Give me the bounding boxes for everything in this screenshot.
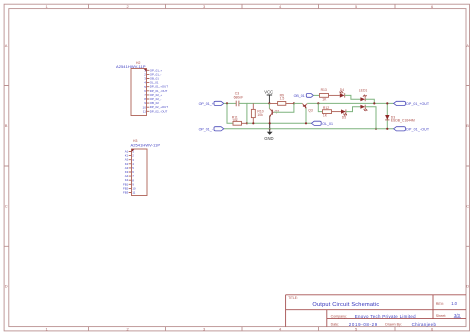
- wire Q3 emitter to rail1: [305, 108, 307, 123]
- connector H2 pin stubs: [147, 70, 150, 111]
- svg-text:LED1: LED1: [359, 88, 368, 92]
- junction R10 bottom on rail: [252, 122, 254, 124]
- ground stem: [269, 123, 271, 132]
- capacitor C3: [234, 92, 244, 107]
- power flag VCC: [264, 90, 273, 104]
- junction emitter on rail2: [269, 128, 271, 130]
- svg-text:Chiranjeeb: Chiranjeeb: [412, 322, 437, 327]
- junction D3 top: [386, 102, 388, 104]
- svg-text:B: B: [466, 123, 469, 128]
- diode D3 ESD protection: [385, 103, 415, 128]
- svg-text:11: 11: [143, 109, 146, 113]
- connector H3 body: [132, 149, 148, 196]
- junction VCC / Q2 collector on rail: [268, 102, 270, 104]
- svg-text:R13: R13: [321, 88, 327, 92]
- wire C3 right to vertical: [239, 103, 247, 123]
- svg-text:GND: GND: [264, 136, 273, 141]
- connector H2 pin1 marker: [144, 69, 147, 72]
- CONNECTORS: [116, 61, 168, 196]
- resistor R13: [320, 88, 340, 101]
- svg-text:11: 11: [132, 191, 135, 195]
- wire node down to R11 left: [227, 103, 233, 123]
- top edge ticks: [89, 4, 396, 8]
- wire D4 cathode to LED1 top anode: [345, 95, 361, 99]
- wire rail2 (lower output rail): [224, 128, 394, 130]
- svg-text:Q3: Q3: [308, 109, 313, 113]
- resistor R12: [323, 106, 342, 117]
- svg-text:Date:: Date:: [331, 322, 340, 326]
- connector H2 body: [131, 69, 147, 116]
- wire bottom rail (GND rail): [247, 122, 312, 124]
- title block outline: [286, 295, 466, 327]
- left edge ticks: [4, 86, 9, 247]
- ground GND: [264, 132, 273, 141]
- bottom edge ticks: [89, 327, 396, 331]
- diode D5 (LED): [341, 109, 347, 119]
- svg-text:OB_01: OB_01: [294, 94, 305, 98]
- connector H3 pin stubs: [129, 152, 132, 193]
- junction node at C3/R11 left: [226, 102, 228, 104]
- svg-text:Output Circuit Schematic: Output Circuit Schematic: [312, 302, 379, 308]
- wire LED1 top cathode to +OUT rail: [365, 99, 374, 103]
- diode D4 (LED): [339, 88, 344, 98]
- svg-text:A: A: [466, 43, 469, 48]
- wire Q2 emitter to GND rail: [269, 116, 271, 123]
- svg-text:DP_02_-OUT: DP_02_-OUT: [150, 109, 168, 113]
- svg-text:OP_01_-: OP_01_-: [199, 127, 214, 131]
- resistor R11: [232, 115, 247, 125]
- svg-text:DP_01_+OUT: DP_01_+OUT: [406, 102, 430, 106]
- junction R12 tap node: [317, 102, 319, 104]
- resistor R9: [269, 93, 294, 105]
- svg-text:C: C: [5, 204, 8, 209]
- svg-text:Sheet:: Sheet:: [436, 314, 446, 318]
- junction LED bottom on rail2: [375, 128, 377, 130]
- net flag DP_01_-OUT: [394, 127, 430, 132]
- svg-text:1.5: 1.5: [280, 97, 285, 101]
- svg-text:Drawn By:: Drawn By:: [385, 322, 402, 326]
- junction emitter on rail1: [269, 122, 271, 124]
- wire R12 tap down: [318, 103, 322, 111]
- svg-text:1.0: 1.0: [451, 301, 457, 306]
- svg-text:Enovo Tech Private Limited: Enovo Tech Private Limited: [355, 314, 416, 319]
- svg-text:680nF: 680nF: [234, 96, 244, 100]
- svg-text:2019-08-29: 2019-08-29: [349, 322, 378, 327]
- svg-text:A2541HWV-11P: A2541HWV-11P: [131, 143, 161, 148]
- svg-text:D: D: [466, 284, 469, 289]
- wire OB_01 to R13: [313, 94, 319, 96]
- connector H3 pin1 marker: [132, 149, 135, 152]
- resistor R10: [251, 103, 263, 123]
- svg-text:B: B: [5, 123, 8, 128]
- wire D5 cathode to LED1 bottom anode: [346, 107, 361, 112]
- svg-text:OP_01_+: OP_01_+: [199, 102, 214, 106]
- junction C3/R11 right node: [246, 122, 248, 124]
- svg-text:VCC: VCC: [264, 90, 273, 95]
- net flag OP_01_+: [199, 101, 224, 106]
- svg-text:3/3: 3/3: [454, 313, 460, 318]
- svg-text:ESDB_C1644M: ESDB_C1644M: [391, 119, 415, 123]
- svg-text:TITLE:: TITLE:: [288, 296, 298, 300]
- wire R9 node down-left to Q2 base: [274, 103, 294, 112]
- junction Q3 emitter on rail1: [305, 122, 307, 124]
- transistor Q2: [269, 109, 279, 117]
- svg-text:D: D: [5, 284, 8, 289]
- top rail wire C3 node to VCC node: [247, 102, 270, 104]
- net flag DP_01_+OUT: [394, 101, 430, 106]
- wire Q2 collector drop: [268, 103, 270, 108]
- net flag OB_01: [294, 94, 314, 98]
- svg-text:DP_01_-OUT: DP_01_-OUT: [406, 127, 430, 131]
- svg-text:Company:: Company:: [331, 314, 347, 318]
- svg-text:10k: 10k: [257, 113, 263, 117]
- svg-text:A: A: [5, 43, 8, 48]
- svg-text:OL_01: OL_01: [322, 122, 333, 126]
- svg-text:1K: 1K: [322, 97, 327, 101]
- transistor Q3: [302, 104, 313, 113]
- CIRCUIT: [199, 88, 430, 141]
- wire LED1 bottom cathode crossing to rail2: [365, 107, 376, 129]
- svg-text:C: C: [466, 204, 469, 209]
- junction LED top on rail: [373, 102, 375, 104]
- LED LED1 (dual): [359, 88, 368, 111]
- junction D3 bottom: [386, 128, 388, 130]
- right edge ticks: [466, 86, 470, 247]
- TITLEBLOCK: [286, 295, 466, 327]
- net flag OL_01: [311, 121, 333, 126]
- wire OP_01_+ flag to node: [224, 102, 236, 104]
- net flag OP_01_-: [199, 127, 224, 132]
- svg-text:D5: D5: [342, 116, 346, 120]
- top rail wire R9 node to Q3: [294, 102, 302, 104]
- junction R9 right node: [293, 102, 295, 104]
- svg-text:FB3: FB3: [123, 191, 129, 195]
- top rail wire Q3 to +OUT flag: [307, 102, 393, 104]
- svg-text:REV:: REV:: [436, 302, 444, 306]
